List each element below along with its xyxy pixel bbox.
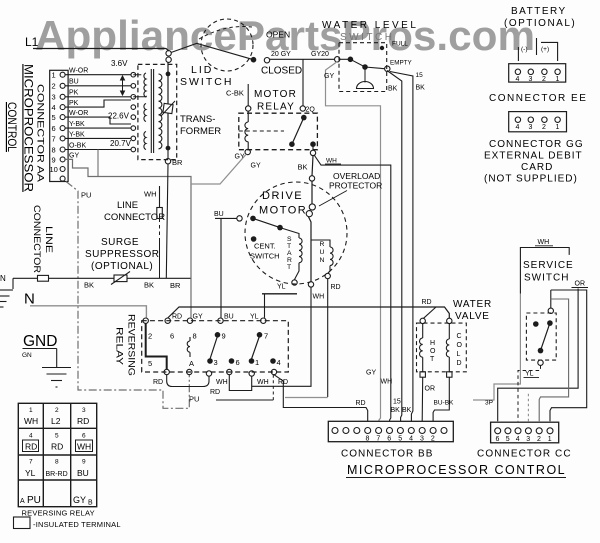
svg-text:MOTOR: MOTOR — [254, 89, 297, 100]
centrifugal switch — [250, 216, 283, 242]
svg-text:GY: GY — [193, 314, 203, 321]
service switch top terminal — [548, 290, 553, 313]
wire pin10 PU — [66, 182, 189, 409]
svg-text:3: 3 — [529, 124, 533, 131]
lid switch CLOSED terminal — [261, 58, 302, 77]
svg-text:4: 4 — [516, 76, 520, 83]
connector CC pins — [495, 428, 553, 434]
label WATER VALVE — [453, 299, 492, 322]
svg-text:CONNECTOR BB: CONNECTOR BB — [341, 449, 433, 460]
svg-text:2: 2 — [542, 76, 546, 83]
legend cell A PU — [20, 495, 41, 506]
svg-text:SERVICE: SERVICE — [523, 260, 574, 271]
transformer T1 box — [138, 64, 177, 159]
label HOT (vertical) — [430, 340, 436, 363]
svg-text:6: 6 — [82, 433, 86, 440]
svg-text:7: 7 — [376, 436, 380, 443]
svg-text:8: 8 — [366, 436, 370, 443]
wire BK relay to overload — [312, 156, 313, 176]
line connector terminal on BK wire — [38, 275, 49, 281]
reversing relay contact arms — [210, 336, 260, 359]
svg-text:A: A — [287, 250, 292, 257]
svg-text:REVERSING RELAY: REVERSING RELAY — [22, 509, 95, 518]
svg-text:DRIVE: DRIVE — [262, 190, 303, 202]
svg-text:WATER LEVEL: WATER LEVEL — [322, 20, 418, 31]
svg-text:LINE: LINE — [117, 200, 138, 211]
wire pin8 O-BK — [65, 143, 131, 177]
label MICROPROCESSOR CONTROL — [346, 463, 566, 478]
svg-text:(-): (-) — [521, 46, 528, 53]
node GND — [22, 333, 57, 359]
svg-text:YL: YL — [25, 468, 36, 478]
wire BR down — [166, 164, 181, 290]
svg-text:LID: LID — [191, 64, 213, 76]
svg-text:15: 15 — [393, 399, 401, 406]
value label 20.7V — [110, 139, 132, 148]
svg-text:2Q: 2Q — [306, 107, 316, 114]
svg-text:15: 15 — [416, 72, 424, 79]
svg-text:CONNECTOR EE: CONNECTOR EE — [489, 93, 587, 104]
water level switch terminal GY20 — [335, 57, 340, 62]
wire to motor relay common — [302, 59, 304, 105]
svg-text:WH: WH — [216, 379, 228, 386]
svg-text:2: 2 — [55, 407, 59, 414]
svg-text:O-BK: O-BK — [69, 143, 86, 150]
wire pin5 W-OR — [65, 110, 131, 124]
service switch bracket — [520, 248, 569, 294]
svg-text:PU: PU — [81, 191, 91, 200]
svg-text:Y-BK: Y-BK — [69, 121, 85, 128]
svg-text:1: 1 — [548, 436, 552, 443]
connector BB pin numbers — [366, 436, 435, 443]
svg-text:5: 5 — [398, 436, 402, 443]
svg-text:BK: BK — [84, 281, 94, 290]
svg-text:PU: PU — [189, 395, 199, 404]
svg-text:W-OR: W-OR — [69, 68, 88, 75]
wire pin3 PK — [65, 90, 131, 97]
svg-text:U: U — [320, 249, 325, 256]
wire top terminal to connector CC pin1 — [550, 290, 587, 421]
legend cell 6 WH boxed — [76, 433, 93, 452]
svg-text:RD: RD — [153, 379, 163, 386]
service switch bottom terminal — [538, 360, 543, 365]
lid switch OPEN position (dashed) — [199, 27, 290, 40]
svg-text:TRANS-: TRANS- — [180, 114, 215, 125]
svg-text:5: 5 — [52, 113, 56, 122]
svg-text:1: 1 — [556, 124, 560, 131]
motor relay box — [239, 113, 318, 150]
transformer primary winding — [159, 74, 162, 149]
terminal RD motor — [325, 273, 341, 291]
label CONNECTOR BB — [341, 449, 433, 460]
svg-text:OR: OR — [575, 281, 586, 288]
motor relay coil — [245, 111, 248, 149]
svg-text:BATTERY: BATTERY — [511, 6, 567, 17]
svg-text:5: 5 — [506, 436, 510, 443]
svg-text:4: 4 — [516, 124, 520, 131]
wire t1-t3 link RD — [153, 375, 209, 387]
svg-text:RD: RD — [210, 389, 220, 396]
wire OR to connector BB pin3 — [422, 377, 435, 421]
motor relay coil bottom terminal GY — [235, 149, 261, 169]
label C-BK — [226, 89, 244, 98]
connector EE pins — [515, 69, 560, 83]
battery leads — [518, 38, 557, 61]
svg-text:SWITCH: SWITCH — [250, 252, 280, 261]
svg-text:S: S — [287, 236, 292, 243]
reversing relay contact dots row1 — [215, 332, 263, 338]
svg-text:PK: PK — [69, 90, 79, 97]
svg-text:3: 3 — [529, 76, 533, 83]
wire BK from EMPTY down (15) — [387, 71, 425, 422]
thermal fuse on primary — [161, 101, 175, 116]
label CONNECTOR AA (vertical) — [35, 84, 46, 183]
cold solenoid — [446, 324, 449, 372]
svg-text:T: T — [430, 356, 435, 363]
legend cell GY B — [73, 495, 93, 507]
svg-text:FORMER: FORMER — [180, 126, 221, 137]
svg-text:BU-BK: BU-BK — [434, 400, 455, 407]
drive motor body (dashed circle) — [245, 182, 347, 284]
water level switch common junction — [340, 57, 353, 63]
label OVERLOAD PROTECTOR — [319, 171, 382, 206]
svg-text:-INSULATED TERMINAL: -INSULATED TERMINAL — [33, 520, 121, 529]
transformer core — [151, 69, 153, 153]
svg-text:GY: GY — [251, 163, 261, 170]
svg-text:WH: WH — [24, 416, 38, 426]
svg-text:SURGE: SURGE — [101, 237, 139, 248]
svg-text:L2: L2 — [51, 416, 61, 426]
svg-text:1: 1 — [29, 407, 33, 414]
svg-text:RD: RD — [172, 314, 182, 321]
svg-text:B: B — [88, 500, 93, 507]
service switch box — [526, 313, 556, 360]
svg-text:BR-RD: BR-RD — [46, 471, 68, 478]
svg-text:BK: BK — [402, 407, 412, 414]
wire RD motor down — [327, 279, 329, 397]
svg-text:7: 7 — [264, 332, 268, 341]
svg-text:(OPTIONAL): (OPTIONAL) — [504, 18, 576, 29]
wire PU/RD gray return — [189, 395, 328, 404]
legend cell 4 RD boxed — [23, 433, 39, 452]
labels RD GY BU YL — [172, 314, 259, 321]
svg-text:C-BK: C-BK — [226, 89, 244, 98]
wire gray to connector CC pin3 — [527, 392, 529, 421]
wire BK through motor — [309, 217, 312, 282]
svg-text:CONNECTOR GG: CONNECTOR GG — [489, 139, 584, 150]
label LID SWITCH — [180, 64, 233, 88]
label MICROPROCESSOR (vertical) — [22, 64, 34, 192]
svg-text:BK: BK — [388, 86, 398, 93]
ground (left edge) — [0, 278, 13, 307]
svg-text:RELAY: RELAY — [114, 327, 125, 366]
reversing relay internal strap pin2-pin5 — [146, 323, 167, 369]
svg-text:7: 7 — [52, 135, 56, 144]
svg-text:T: T — [287, 264, 291, 271]
svg-text:8: 8 — [193, 332, 197, 341]
service switch WH lead — [535, 239, 553, 246]
transformer tap terminals — [131, 72, 136, 151]
legend insulated terminal — [14, 517, 121, 529]
reversing relay bottom terminals — [164, 369, 277, 376]
value label 22.6V — [108, 112, 130, 121]
transformer secondary winding 1 — [133, 73, 146, 97]
wire GY lid switch to water level — [270, 51, 335, 59]
svg-text:9: 9 — [52, 156, 56, 165]
reversing relay top terminals — [143, 318, 266, 323]
legend cell 1 WH — [24, 407, 38, 426]
connector GG body — [509, 112, 567, 132]
svg-text:GY: GY — [366, 370, 376, 377]
terminal BU — [214, 211, 242, 221]
svg-text:D: D — [457, 360, 462, 367]
measurement arrow 3.6V — [121, 76, 125, 95]
svg-text:GY: GY — [324, 73, 334, 80]
svg-text:YL: YL — [525, 371, 534, 378]
svg-text:RD: RD — [331, 284, 341, 291]
svg-text:9: 9 — [222, 332, 226, 341]
svg-text:2: 2 — [52, 82, 56, 91]
svg-text:4: 4 — [516, 436, 520, 443]
lid switch body (dashed circle) — [201, 19, 253, 71]
primary circuit wire with junctions — [166, 62, 171, 150]
svg-text:N: N — [320, 257, 325, 264]
svg-text:BK: BK — [391, 407, 401, 414]
wire OR to connector CC pin6 — [485, 289, 578, 422]
label BK — [298, 163, 308, 172]
svg-text:RD: RD — [25, 442, 37, 452]
svg-text:4: 4 — [29, 433, 33, 440]
connector EE body — [509, 64, 566, 82]
svg-text:2: 2 — [542, 124, 546, 131]
start winding — [280, 228, 302, 280]
label CENT. SWITCH — [250, 242, 280, 261]
svg-text:6: 6 — [387, 436, 391, 443]
connector AA pin circles — [60, 72, 65, 181]
terminal BR — [165, 150, 183, 167]
wire WH service down — [473, 294, 520, 401]
svg-text:3: 3 — [214, 358, 218, 367]
svg-text:20 GY: 20 GY — [271, 51, 291, 58]
reversing relay box — [142, 321, 289, 372]
label CONNECTOR CC — [477, 449, 572, 460]
watermark — [35, 12, 535, 59]
svg-text:10: 10 — [50, 165, 58, 174]
transformer secondary winding 2 — [144, 104, 146, 122]
svg-text:Y-BK: Y-BK — [69, 132, 85, 139]
labels above connector BB — [366, 370, 412, 415]
node N (bus) — [24, 291, 35, 308]
svg-text:BK: BK — [416, 85, 426, 92]
wire YL to connector CC pin4 — [518, 365, 541, 421]
connector CC body — [491, 422, 559, 443]
svg-text:4: 4 — [409, 436, 413, 443]
svg-text:RD: RD — [356, 400, 366, 407]
wire GY to reversing relay — [191, 154, 246, 184]
svg-text:BR: BR — [172, 158, 183, 167]
svg-text:A: A — [189, 359, 194, 368]
terminal YL — [262, 280, 297, 294]
svg-text:RD: RD — [51, 442, 63, 452]
svg-text:YL: YL — [250, 314, 259, 321]
label REVERSING RELAY (vertical) — [114, 314, 137, 376]
svg-text:LINE: LINE — [43, 226, 54, 253]
svg-text:L1: L1 — [25, 35, 39, 49]
water level EMPTY terminal — [385, 60, 413, 72]
svg-text:9: 9 — [82, 459, 86, 466]
svg-text:L: L — [457, 351, 461, 358]
svg-text:SWITCH: SWITCH — [524, 273, 569, 284]
label CONTROL (vertical) — [5, 102, 17, 153]
legend cell 5 RD — [51, 433, 63, 452]
svg-text:WH: WH — [538, 239, 550, 246]
svg-text:GN: GN — [22, 352, 32, 359]
svg-text:GND: GND — [23, 333, 57, 350]
line connector WH terminal — [144, 186, 162, 278]
svg-text:CONNECTOR: CONNECTOR — [31, 205, 42, 273]
svg-text:4: 4 — [52, 103, 56, 112]
label BATTERY (OPTIONAL) — [504, 6, 576, 29]
svg-text:WH: WH — [381, 379, 393, 386]
label RUN (vertical) — [320, 241, 325, 264]
label LINE CONNECTOR (horizontal) — [104, 200, 165, 223]
svg-text:R: R — [287, 257, 292, 264]
label DRIVE MOTOR — [259, 190, 307, 217]
svg-text:3: 3 — [526, 436, 530, 443]
svg-text:WH: WH — [326, 158, 337, 165]
svg-text:1: 1 — [255, 358, 259, 367]
svg-text:3: 3 — [82, 407, 86, 414]
svg-text:BU: BU — [224, 314, 234, 321]
svg-text:6: 6 — [52, 124, 56, 133]
connector AA pin numbers — [50, 71, 58, 175]
water valve box — [417, 323, 467, 372]
label SURGE SUPPRESSOR (OPTIONAL) — [85, 237, 159, 272]
label START (vertical) — [287, 236, 292, 271]
svg-text:WATER: WATER — [453, 299, 492, 310]
label TRANSFORMER — [180, 114, 221, 137]
wire WH from relay to connector BB pin6 — [315, 156, 391, 422]
water level switch arm and diaphragm — [350, 59, 384, 88]
svg-text:MICROPROCESSOR: MICROPROCESSOR — [22, 64, 34, 192]
svg-text:BK: BK — [144, 281, 154, 290]
water level switch box — [339, 43, 387, 92]
reversing relay contact dots row2 — [207, 358, 276, 364]
svg-text:2: 2 — [537, 436, 541, 443]
svg-text:5: 5 — [55, 433, 59, 440]
wire pin4 PK — [65, 100, 131, 107]
legend cell 7 YL — [25, 459, 36, 479]
svg-text:5: 5 — [148, 359, 152, 368]
water valve bottom terminals — [420, 372, 452, 377]
value label 3.6V — [111, 59, 128, 68]
svg-text:6: 6 — [236, 358, 240, 367]
label OR — [572, 281, 589, 288]
label MOTOR RELAY — [254, 89, 297, 113]
svg-text:GY20: GY20 — [311, 51, 329, 58]
svg-text:WH: WH — [77, 442, 91, 452]
svg-text:MICROPROCESSOR CONTROL: MICROPROCESSOR CONTROL — [347, 463, 566, 477]
svg-text:7: 7 — [29, 459, 33, 466]
label CONNECTOR GG EXTERNAL DEBIT CARD — [484, 139, 584, 185]
connector CC pin numbers — [496, 436, 552, 443]
label LINE CONNECTOR (vertical, left) — [31, 205, 54, 273]
water level FULL contact — [380, 41, 408, 51]
svg-text:EXTERNAL DEBIT: EXTERNAL DEBIT — [484, 151, 583, 162]
svg-text:6: 6 — [170, 332, 174, 341]
wire WH motor to reversing relay — [252, 287, 311, 386]
label WATER LEVEL SWITCH — [322, 20, 418, 43]
ground symbol (GND) — [42, 349, 71, 388]
connector GG pins — [515, 117, 560, 131]
svg-text:4: 4 — [277, 358, 281, 367]
svg-text:GY: GY — [69, 153, 79, 160]
wire RD t6 to connector BB pin8 — [210, 375, 368, 422]
svg-text:RD: RD — [77, 416, 89, 426]
svg-text:A: A — [20, 498, 25, 505]
wire N to reversing relay — [30, 306, 146, 318]
terminal WH motor — [308, 282, 324, 301]
svg-text:3: 3 — [52, 93, 56, 102]
label COLD (vertical) — [457, 333, 463, 367]
svg-text:WH: WH — [144, 190, 157, 199]
wire pin1 W-OR — [65, 68, 131, 75]
svg-text:OPEN: OPEN — [266, 30, 290, 40]
svg-text:8: 8 — [52, 146, 56, 155]
label SERVICE SWITCH — [523, 260, 574, 284]
svg-text:8: 8 — [55, 459, 59, 466]
connector BB pins — [332, 428, 447, 434]
legend cell 9 BU — [77, 459, 89, 479]
wire GY from water level down — [324, 62, 381, 422]
surge suppressor symbol — [111, 272, 130, 285]
svg-text:3: 3 — [420, 436, 424, 443]
svg-text:BU: BU — [214, 211, 224, 218]
svg-text:CONNECTOR AA: CONNECTOR AA — [35, 84, 46, 183]
water valve top terminals — [420, 318, 452, 323]
svg-text:MOTOR: MOTOR — [259, 205, 307, 217]
svg-text:GY: GY — [73, 495, 86, 505]
wire pin6 Y-BK — [65, 121, 131, 128]
svg-text:CONNECTOR CC: CONNECTOR CC — [477, 449, 572, 460]
svg-text:1: 1 — [556, 76, 560, 83]
svg-text:R: R — [320, 241, 325, 248]
svg-text:PK: PK — [69, 100, 79, 107]
wire L1 to lid switch common — [33, 49, 169, 52]
svg-text:PU: PU — [27, 495, 41, 506]
hot solenoid — [420, 324, 423, 372]
label REVERSING RELAY (legend) — [22, 509, 95, 518]
reversing relay pin numbers row1 — [148, 332, 268, 341]
svg-text:1: 1 — [52, 71, 56, 80]
label CONNECTOR EE — [489, 93, 587, 104]
svg-text:VALVE: VALVE — [455, 311, 490, 322]
svg-text:22.6V: 22.6V — [108, 112, 130, 121]
service switch contacts — [533, 320, 553, 353]
svg-text:BU: BU — [69, 79, 79, 86]
legend table REVERSING RELAY — [18, 403, 96, 506]
svg-text:CLOSED: CLOSED — [261, 66, 302, 77]
node L1 — [25, 35, 39, 49]
motor relay coil terminal — [246, 84, 251, 111]
wire YL motor to reversing relay — [264, 294, 266, 318]
svg-text:2: 2 — [431, 436, 435, 443]
wire BU vertical — [220, 218, 222, 317]
svg-text:CONNECTOR: CONNECTOR — [104, 212, 165, 223]
svg-text:CENT.: CENT. — [254, 242, 276, 251]
svg-text:WH: WH — [257, 379, 269, 386]
water valve RD lead — [422, 299, 437, 318]
